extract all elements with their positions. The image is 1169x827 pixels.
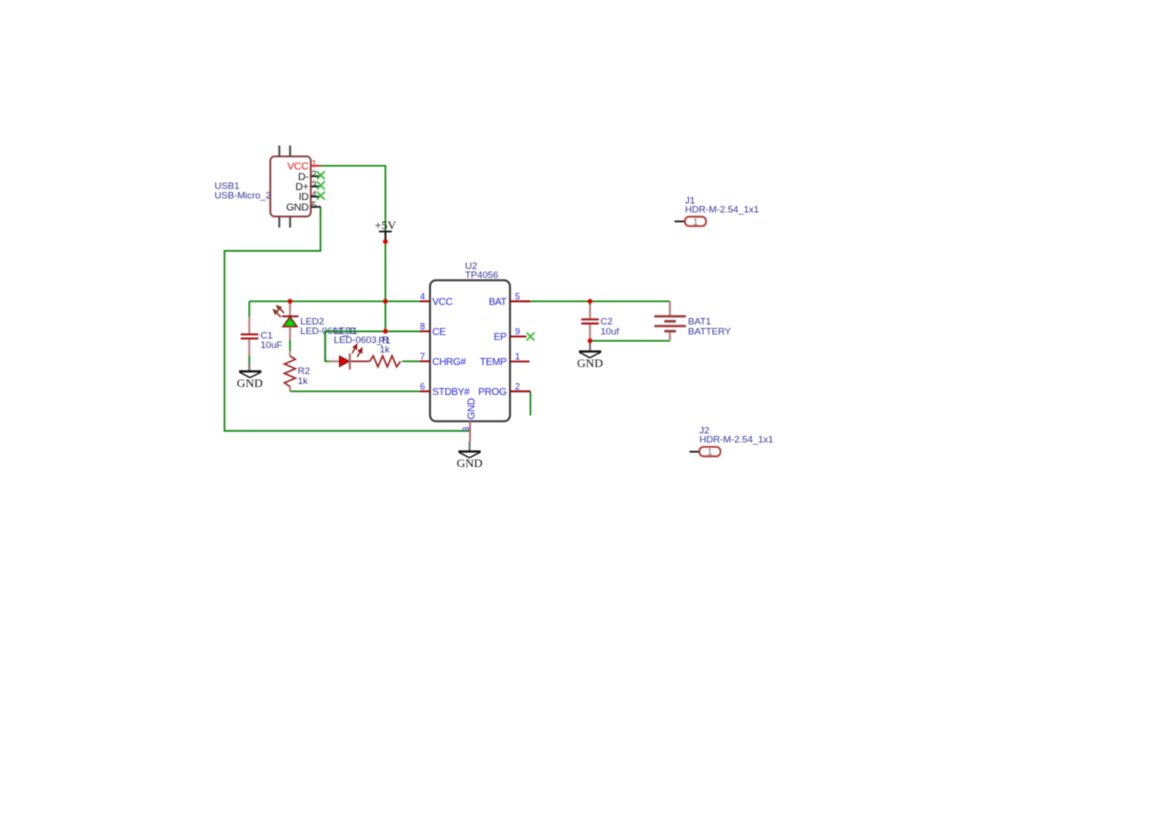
U2 pin 2 PROG — [478, 382, 530, 398]
capacitor C2 — [581, 306, 619, 340]
wire VCC horizontal net — [249, 300, 419, 302]
USB1 pin 1 VCC — [287, 158, 320, 172]
wire CE to LED1 anode — [325, 331, 341, 361]
header J1 HDR-M-2.54_1x1 — [675, 195, 759, 226]
wire GND loop from USB pin5 — [225, 207, 470, 431]
svg-text:7: 7 — [420, 352, 425, 362]
svg-text:GND: GND — [466, 398, 477, 419]
wire C2 column — [589, 301, 591, 341]
USB1 pin 2 D- — [298, 169, 320, 183]
U2 pin 8 CE — [420, 322, 447, 338]
U2 pin 6 STDBY# — [420, 382, 471, 398]
svg-text:HDR-M-2.54_1x1: HDR-M-2.54_1x1 — [685, 205, 759, 216]
U2 pin 7 CHRG# — [420, 352, 467, 368]
svg-text:GND: GND — [577, 356, 603, 370]
svg-text:CE: CE — [432, 327, 446, 338]
svg-text:6: 6 — [420, 382, 425, 392]
svg-text:1k: 1k — [380, 345, 390, 356]
svg-text:10uF: 10uF — [261, 340, 283, 351]
svg-text:USB-Micro_2: USB-Micro_2 — [215, 190, 272, 201]
svg-text:10uf: 10uf — [601, 326, 620, 337]
svg-text:1: 1 — [515, 352, 520, 362]
svg-text:BAT: BAT — [489, 297, 507, 308]
wire BAT net top — [530, 300, 670, 302]
header J2 HDR-M-2.54_1x1 — [690, 425, 774, 457]
power flag +5V — [375, 218, 397, 241]
svg-text:4: 4 — [311, 190, 316, 200]
svg-text:TP4056: TP4056 — [465, 270, 498, 281]
svg-text:1: 1 — [311, 158, 316, 168]
svg-text:8: 8 — [420, 322, 425, 332]
svg-text:1: 1 — [707, 447, 712, 457]
capacitor C1 — [241, 317, 283, 357]
junction dot C2 top — [588, 299, 593, 304]
junction dot C2 bottom — [588, 338, 593, 343]
junction dot +5V — [383, 239, 388, 244]
U2 pin 3 GND — [461, 398, 477, 441]
svg-text:BATTERY: BATTERY — [688, 326, 732, 337]
wire CE horizontal — [325, 330, 419, 332]
svg-text:5: 5 — [311, 200, 316, 210]
svg-text:1: 1 — [693, 217, 698, 227]
svg-text:9: 9 — [515, 327, 520, 337]
ground flag below C2 — [577, 341, 603, 370]
no-connect X U2 EP — [527, 333, 535, 341]
LED LED2 (green) — [274, 302, 299, 340]
svg-text:TEMP: TEMP — [480, 357, 507, 368]
label LED1 — [334, 326, 389, 346]
svg-text:+5V: +5V — [375, 218, 397, 232]
svg-text:GND: GND — [286, 201, 309, 213]
svg-text:1k: 1k — [298, 376, 308, 387]
svg-text:GND: GND — [237, 376, 263, 390]
label USB1 — [215, 181, 272, 201]
battery BAT1 — [654, 301, 731, 341]
IC U2 TP4056 — [430, 261, 510, 421]
junction dot CE — [383, 329, 388, 334]
svg-text:2: 2 — [311, 169, 316, 179]
svg-text:GND: GND — [457, 456, 483, 470]
svg-text:STDBY#: STDBY# — [432, 387, 470, 398]
wire CE overlay — [325, 331, 419, 362]
U2 pin 1 TEMP — [480, 352, 530, 368]
junction dot LED2 top — [288, 299, 293, 304]
svg-text:3: 3 — [311, 179, 316, 189]
svg-text:CHRG#: CHRG# — [432, 357, 466, 368]
svg-text:2: 2 — [515, 382, 520, 392]
wire USB VCC to +5V column — [321, 166, 386, 331]
LED LED1 (red) — [329, 344, 370, 369]
U2 pin 9 EP — [494, 327, 527, 343]
junction dot VCC/+5V — [383, 299, 388, 304]
svg-text:5: 5 — [515, 292, 520, 302]
wire R1 to CHRG# — [402, 360, 420, 362]
no-connect X pin 2 — [317, 171, 325, 179]
wire LED2 to R2 — [289, 340, 291, 353]
svg-text:4: 4 — [420, 292, 425, 302]
svg-text:EP: EP — [494, 332, 507, 343]
svg-text:PROG: PROG — [478, 387, 507, 398]
svg-text:3: 3 — [461, 427, 471, 432]
ground flag below C1 — [237, 362, 263, 390]
no-connect X pin 3 — [317, 181, 325, 189]
resistor R2 1k — [284, 351, 309, 392]
USB1 pin 3 D+ — [295, 179, 320, 193]
svg-text:VCC: VCC — [432, 297, 452, 308]
wire battery bottom — [590, 340, 670, 342]
wire STDBY# horizontal — [290, 390, 419, 392]
U2 pin 5 BAT — [489, 292, 531, 308]
USB1 pin 5 GND — [286, 200, 320, 214]
USB1 pin 4 ID — [299, 190, 321, 204]
no-connect X pin 4 — [317, 192, 325, 200]
U2 pin 4 VCC — [420, 292, 453, 308]
label LED2 — [300, 316, 356, 337]
svg-text:HDR-M-2.54_1x1: HDR-M-2.54_1x1 — [699, 435, 773, 446]
wire PROG dangle — [529, 391, 531, 415]
resistor R1 1k — [370, 336, 401, 367]
wire C1 branch — [248, 301, 250, 363]
connector USB1 USB-Micro_2 — [270, 146, 311, 228]
ground flag below U2 — [457, 441, 483, 470]
